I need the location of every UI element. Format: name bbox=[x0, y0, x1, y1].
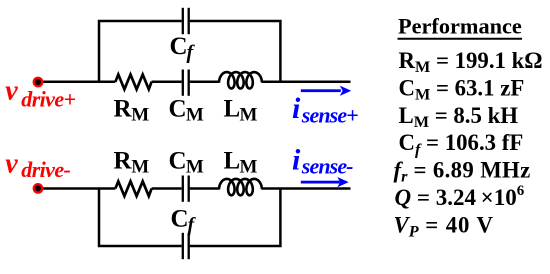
svg-text:C: C bbox=[171, 206, 189, 233]
capacitor Cf (top) plates bbox=[183, 8, 189, 34]
svg-text:C: C bbox=[169, 95, 187, 122]
node vdrive+ dot bbox=[33, 77, 44, 88]
svg-text:fr = 6.89 MHz: fr = 6.89 MHz bbox=[394, 158, 531, 186]
capacitor Cf (bottom) plates bbox=[183, 233, 189, 259]
svg-text:M: M bbox=[240, 157, 258, 178]
svg-text:C: C bbox=[170, 33, 188, 60]
svg-text:M: M bbox=[186, 104, 204, 125]
svg-text:i: i bbox=[292, 143, 301, 176]
svg-text:sense-: sense- bbox=[301, 154, 353, 179]
svg-text:L: L bbox=[224, 95, 241, 122]
svg-text:Performance: Performance bbox=[398, 14, 522, 39]
svg-text:R: R bbox=[114, 95, 133, 122]
svg-text:M: M bbox=[131, 104, 149, 125]
resistor RM (bottom) bbox=[115, 181, 151, 196]
svg-text:Q = 3.24 ×106: Q = 3.24 ×106 bbox=[395, 183, 525, 210]
arrow isense+ bbox=[301, 86, 351, 96]
wire bottom Cf loop bbox=[99, 189, 280, 247]
svg-text:L: L bbox=[224, 148, 241, 175]
svg-text:M: M bbox=[240, 104, 258, 125]
capacitor CM (top) plates bbox=[183, 70, 189, 96]
resistor RM (top) bbox=[115, 75, 151, 90]
node vdrive- dot bbox=[33, 183, 44, 194]
svg-text:i: i bbox=[292, 92, 301, 125]
svg-text:drive+: drive+ bbox=[21, 86, 75, 111]
wire top Cf loop bbox=[99, 21, 280, 82]
svg-text:C: C bbox=[169, 148, 187, 175]
svg-text:R: R bbox=[114, 148, 133, 175]
svg-text:drive-: drive- bbox=[21, 157, 70, 182]
svg-text:v: v bbox=[5, 76, 18, 107]
inductor LM (top) bbox=[219, 72, 262, 88]
inductor LM (bottom) bbox=[219, 179, 262, 195]
svg-text:M: M bbox=[131, 157, 149, 178]
arrow isense- bbox=[301, 177, 349, 187]
svg-text:v: v bbox=[5, 148, 18, 179]
capacitor CM (bottom) plates bbox=[183, 176, 189, 202]
svg-text:VP = 40 V: VP = 40 V bbox=[394, 212, 494, 240]
svg-text:sense+: sense+ bbox=[301, 102, 358, 127]
wire bottom main horizontal bbox=[41, 187, 351, 190]
wire top main horizontal bbox=[41, 80, 351, 83]
svg-text:M: M bbox=[186, 157, 204, 178]
